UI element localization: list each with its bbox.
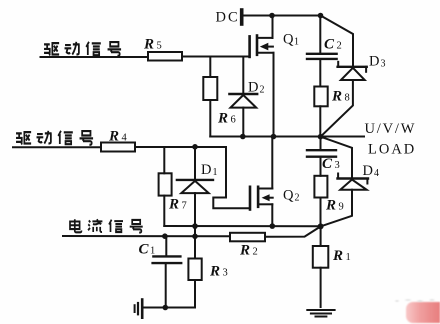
svg-text:4: 4	[374, 168, 379, 179]
svg-text:D: D	[201, 162, 211, 178]
svg-text:2: 2	[337, 41, 342, 52]
svg-text:D: D	[369, 54, 379, 70]
svg-text:D: D	[363, 163, 373, 179]
svg-text:R: R	[325, 198, 336, 214]
svg-text:2: 2	[295, 193, 300, 204]
svg-text:R: R	[239, 243, 250, 259]
svg-text:R: R	[332, 248, 343, 264]
svg-text:1: 1	[294, 37, 299, 48]
svg-text:C: C	[139, 242, 150, 258]
svg-text:7: 7	[182, 201, 187, 212]
svg-text:3: 3	[335, 160, 340, 171]
svg-text:C: C	[322, 156, 333, 172]
svg-text:2: 2	[253, 247, 258, 258]
svg-text:6: 6	[231, 115, 236, 126]
svg-text:R: R	[209, 264, 220, 280]
svg-text:1: 1	[213, 167, 218, 178]
svg-text:R: R	[217, 111, 228, 127]
svg-text:LOAD: LOAD	[368, 142, 416, 158]
svg-text:R: R	[331, 89, 342, 105]
svg-text:8: 8	[345, 93, 350, 104]
svg-text:R: R	[143, 37, 154, 53]
svg-text:R: R	[168, 197, 179, 213]
svg-text:U/V/W: U/V/W	[365, 121, 417, 137]
svg-text:5: 5	[157, 41, 162, 52]
svg-text:C: C	[324, 37, 335, 53]
svg-text:3: 3	[381, 59, 386, 70]
svg-text:3: 3	[223, 268, 228, 279]
svg-text:Q: Q	[283, 188, 294, 204]
svg-text:1: 1	[150, 246, 155, 257]
svg-text:Q: Q	[283, 32, 294, 48]
svg-text:1: 1	[346, 252, 351, 263]
svg-text:DC: DC	[216, 10, 240, 26]
svg-text:4: 4	[122, 133, 128, 144]
svg-text:D: D	[248, 80, 258, 96]
svg-text:9: 9	[339, 202, 344, 213]
svg-text:2: 2	[260, 85, 265, 96]
svg-text:R: R	[108, 129, 119, 145]
